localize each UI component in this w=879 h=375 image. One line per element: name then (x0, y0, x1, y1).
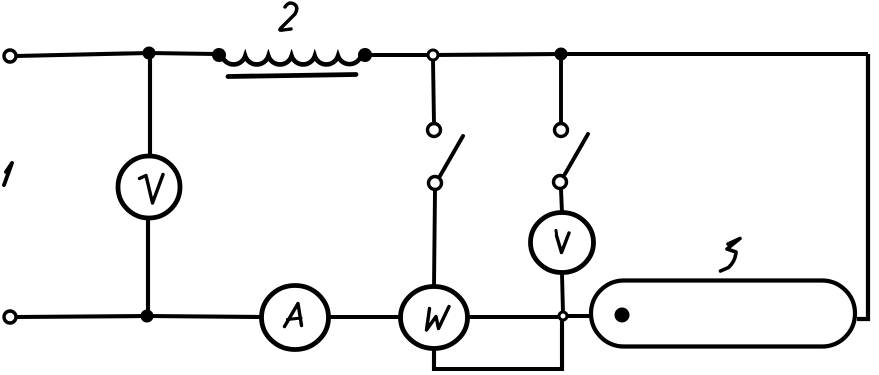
terminal top-left input (4, 50, 16, 62)
wire A to W (328, 315, 402, 319)
load (lamp/tube) 3 body (591, 281, 855, 347)
wire S1 to wattmeter W (434, 190, 435, 286)
wire node to load (568, 314, 591, 318)
voltmeter V1 (118, 156, 180, 218)
wire W voltage-coil loop (434, 321, 562, 369)
wire top rail left segment (16, 53, 216, 56)
letter A of ammeter (285, 304, 302, 327)
wire top rail middle segment (371, 54, 561, 55)
voltmeter V2 (531, 213, 594, 273)
switch S2 lower contact (554, 176, 567, 189)
node switch S1 tap on top rail (428, 50, 438, 60)
wire V1 upper lead (148, 57, 152, 156)
node junction V1 bottom (141, 310, 154, 323)
switch S2 upper contact (555, 124, 568, 137)
wattmeter W (401, 287, 468, 349)
node junction switch S2 top (555, 48, 568, 61)
node inductor left end (212, 48, 226, 62)
label 2 (280, 3, 297, 30)
letter V of V2 (557, 233, 570, 253)
wire right side vertical (857, 54, 868, 319)
wire W right to node (467, 315, 558, 319)
switch S1 lower contact (429, 177, 442, 190)
terminal bottom-left input (4, 311, 16, 323)
letter V of V1 (140, 175, 164, 204)
switch S2 blade (565, 134, 588, 174)
inductor L (choke) 2 (222, 56, 361, 64)
node junction at wattmeter output (559, 312, 567, 320)
switch S1 upper lead (433, 60, 434, 124)
wire S2 to voltmeter V2 (561, 189, 562, 213)
wire V2 lower lead (562, 274, 563, 313)
wire bottom rail left segment (16, 316, 262, 317)
load cathode dot (615, 308, 630, 323)
inductor core line (228, 75, 356, 77)
switch S1 upper contact (428, 124, 441, 137)
wire top rail right segment (566, 52, 868, 56)
label 1 (4, 163, 12, 185)
wire V1 lower lead (146, 218, 150, 314)
label 3 (721, 239, 741, 272)
switch S1 blade (440, 136, 463, 176)
letter W of wattmeter (427, 307, 450, 331)
ammeter A (262, 286, 329, 350)
node junction to voltmeter V1 (143, 47, 156, 60)
node inductor right end (358, 48, 372, 62)
switch S2 upper lead (559, 58, 563, 124)
